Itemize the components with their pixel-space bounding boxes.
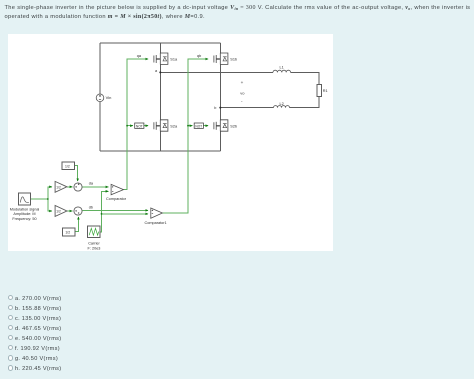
- svg-text:NOT: NOT: [136, 124, 143, 128]
- wire: L2 to R1 bottom: [290, 97, 320, 108]
- wire: NOT out to S2a gate: [144, 125, 148, 127]
- gain1 block 1/2: [55, 206, 67, 217]
- wire: left bus vertical upper: [99, 43, 101, 94]
- svg-text:db: db: [89, 206, 93, 210]
- wire: NOT1 out to S2b gate: [203, 125, 208, 127]
- node a: [159, 71, 161, 73]
- wire: split down to gain1 1/2: [48, 199, 52, 211]
- svg-text:S1a: S1a: [170, 58, 178, 62]
- wire: split up to gain 1/2: [48, 187, 52, 199]
- svg-text:da: da: [89, 181, 94, 185]
- svg-text:Comparator1: Comparator1: [145, 221, 167, 225]
- wire: sum1 db out to comparator1 input 1: [82, 209, 148, 211]
- svg-text:a: a: [155, 69, 158, 73]
- white circuit panel: [8, 34, 333, 252]
- wire: carrier branch to comparator1 input 2: [102, 213, 149, 215]
- svg-text:-: -: [241, 99, 243, 104]
- svg-text:Comparator: Comparator: [106, 197, 127, 201]
- wire: left leg drain: [159, 43, 161, 53]
- inductor L1: [273, 70, 291, 72]
- wire: comparator out up to qa gate: [124, 59, 149, 190]
- svg-text:S2a: S2a: [170, 124, 178, 128]
- wire: L1 to R1 top: [291, 72, 319, 84]
- wire: comparator1 out up to qb gate: [162, 59, 208, 213]
- logic NOT1 gate: [194, 123, 203, 128]
- svg-text:R1: R1: [323, 89, 328, 93]
- transistor S2b: [214, 120, 228, 131]
- wire: branch to NOT input: [127, 125, 133, 127]
- carrier source block: [88, 226, 101, 238]
- constant block 1/2 bottom: [62, 228, 75, 236]
- wire: modulation source out: [31, 198, 48, 200]
- svg-text:L1: L1: [280, 65, 284, 69]
- junction: modulation split: [47, 198, 49, 200]
- wire: right leg mid: [219, 64, 221, 119]
- wire: node b to L2: [220, 107, 273, 109]
- svg-text:1/2: 1/2: [65, 231, 70, 235]
- resistor R1: [317, 85, 322, 97]
- wire: right leg source: [219, 131, 221, 151]
- svg-text:b: b: [214, 106, 216, 110]
- svg-text:S2b: S2b: [230, 124, 237, 128]
- wire: left leg mid: [159, 64, 161, 119]
- transistor S1a: [154, 53, 168, 64]
- comparator1 block: [151, 208, 163, 218]
- transistor S2a: [154, 120, 168, 131]
- node b: [219, 107, 221, 109]
- wire: constant 1/2 to sum1 bottom: [75, 217, 78, 232]
- svg-text:Amplitude: M: Amplitude: M: [13, 212, 35, 216]
- question text: [5, 4, 474, 23]
- svg-text:Vin: Vin: [106, 95, 112, 100]
- svg-text:vo: vo: [240, 90, 245, 95]
- wire: da to comparator input 1: [82, 186, 108, 188]
- wire: left leg source: [159, 131, 161, 151]
- svg-text:1/2: 1/2: [65, 164, 70, 168]
- wire: left bus vertical lower: [99, 102, 101, 152]
- svg-text:Carrier: Carrier: [88, 242, 100, 246]
- wire: constant 1/2 to sum top: [75, 166, 78, 182]
- wire: branch to NOT1 input: [188, 125, 192, 127]
- logic NOT gate: [135, 123, 144, 128]
- modulation signal source block: [19, 193, 31, 205]
- wire: node a to L1: [160, 71, 273, 73]
- transistor S1b: [214, 53, 228, 64]
- sum block: [74, 183, 82, 191]
- inductor L2: [274, 106, 290, 108]
- svg-text:L2: L2: [280, 102, 284, 106]
- junction: qa NOT branch: [126, 125, 128, 127]
- svg-text:qa: qa: [137, 54, 142, 58]
- junction: qb NOT1 branch: [187, 125, 189, 127]
- svg-text:NOT: NOT: [195, 124, 202, 128]
- answer options: [0, 0, 1, 1]
- svg-text:Frequency: 50: Frequency: 50: [12, 217, 36, 221]
- wire: gain out to sum: [67, 186, 72, 188]
- wire: top dc bus: [100, 42, 220, 44]
- sum1 block: [74, 207, 82, 215]
- svg-text:1/2: 1/2: [56, 185, 61, 189]
- wire: carrier up to comparator input 2: [100, 191, 108, 232]
- svg-text:qb: qb: [197, 54, 201, 58]
- svg-text:Modulation signal: Modulation signal: [10, 207, 40, 211]
- svg-text:+: +: [241, 80, 244, 85]
- svg-text:1/2: 1/2: [56, 210, 61, 214]
- constant block 1/2 top: [62, 162, 75, 170]
- junction: carrier split: [101, 213, 103, 215]
- wire: right leg drain: [219, 43, 221, 53]
- svg-text:S1b: S1b: [230, 58, 237, 62]
- svg-text:F: 20e3: F: 20e3: [88, 247, 101, 251]
- voltage source Vin: [96, 94, 104, 102]
- gain block 1/2: [55, 181, 67, 192]
- wire: gain1 out to sum1: [67, 210, 72, 212]
- comparator block: [111, 184, 123, 194]
- wire: bottom dc bus: [100, 150, 220, 152]
